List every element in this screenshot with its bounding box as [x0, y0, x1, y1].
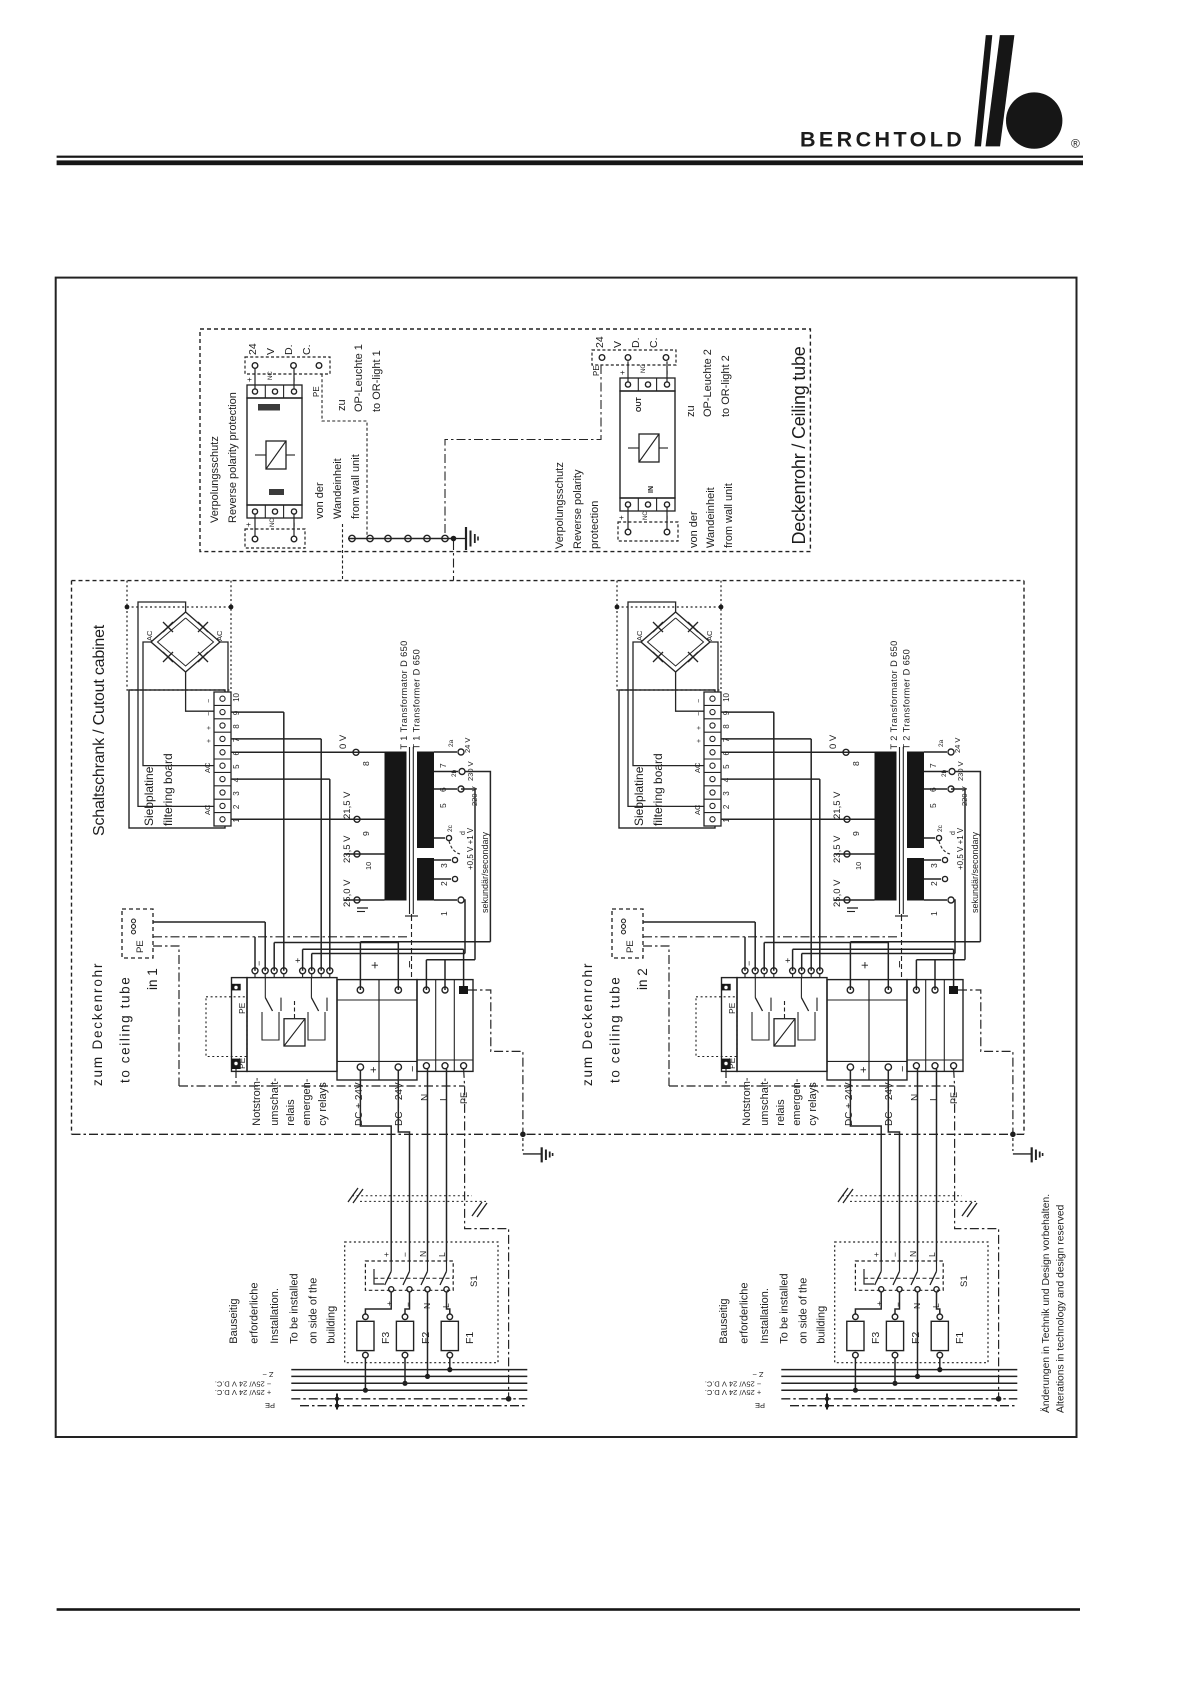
svg-text:25,0 V: 25,0 V: [342, 879, 353, 907]
svg-text:filtering board: filtering board: [161, 753, 175, 826]
svg-text:Notstrom-: Notstrom-: [251, 1077, 263, 1126]
svg-text:OP-Leuchte 1: OP-Leuchte 1: [353, 344, 365, 412]
svg-text:− 25V/ 24 V D.C.: − 25V/ 24 V D.C.: [215, 1380, 272, 1389]
svg-text:DC + 24V: DC + 24V: [354, 1082, 365, 1126]
svg-text:+: +: [381, 1252, 391, 1257]
svg-text:von der: von der: [314, 482, 326, 519]
svg-text:OP-Leuchte 2: OP-Leuchte 2: [702, 349, 714, 417]
svg-text:building: building: [326, 1306, 338, 1344]
svg-text:Deckenrohr / Ceiling tube: Deckenrohr / Ceiling tube: [789, 346, 809, 544]
svg-text:from wall unit: from wall unit: [350, 454, 362, 519]
svg-text:2b: 2b: [451, 769, 458, 777]
svg-text:V: V: [612, 341, 624, 348]
svg-text:zum Deckenrohr: zum Deckenrohr: [90, 962, 105, 1086]
svg-text:AC: AC: [145, 630, 154, 641]
svg-text:zu: zu: [685, 405, 697, 417]
svg-text:Installation.: Installation.: [269, 1288, 281, 1344]
svg-text:D.: D.: [283, 345, 295, 356]
svg-text:PE: PE: [135, 940, 146, 953]
svg-text:PE: PE: [312, 386, 321, 397]
svg-text:emergen-: emergen-: [301, 1078, 313, 1125]
svg-text:in 2: in 2: [635, 968, 650, 990]
svg-text:F2: F2: [420, 1332, 432, 1344]
svg-text:2: 2: [232, 804, 241, 809]
svg-text:T 2 Transformer D 650: T 2 Transformer D 650: [902, 649, 912, 750]
svg-text:−: −: [290, 377, 299, 382]
svg-text:protection: protection: [589, 501, 601, 549]
svg-text:N: N: [420, 1094, 431, 1101]
svg-text:DC − 24V: DC − 24V: [394, 1082, 405, 1126]
svg-text:10: 10: [232, 692, 241, 701]
svg-text:Bauseitig: Bauseitig: [228, 1298, 240, 1343]
svg-text:2: 2: [439, 881, 449, 886]
svg-text:Reverse polarity protection: Reverse polarity protection: [227, 392, 239, 523]
svg-text:AC: AC: [203, 762, 212, 773]
svg-text:Alterations in technology and: Alterations in technology and design res…: [1056, 1204, 1067, 1413]
svg-text:F3: F3: [380, 1332, 392, 1344]
svg-text:+: +: [206, 739, 213, 743]
svg-text:relais: relais: [285, 1099, 297, 1126]
svg-text:5: 5: [232, 764, 241, 769]
svg-text:to OR-light 2: to OR-light 2: [720, 355, 732, 417]
svg-text:IN: IN: [648, 486, 655, 493]
svg-text:5: 5: [438, 803, 448, 808]
svg-text:2a: 2a: [448, 739, 455, 747]
svg-text:umschalt-: umschalt-: [269, 1078, 281, 1126]
svg-text:24 V: 24 V: [463, 738, 472, 753]
svg-text:D.: D.: [630, 338, 642, 349]
svg-text:+: +: [245, 377, 254, 382]
svg-text:Siebplatine: Siebplatine: [142, 766, 156, 826]
svg-text:−: −: [254, 961, 264, 966]
svg-text:−: −: [290, 522, 299, 527]
svg-text:zu: zu: [336, 399, 348, 411]
svg-text:V: V: [265, 348, 277, 355]
svg-text:23,5 V: 23,5 V: [342, 835, 353, 863]
svg-text:PE: PE: [237, 1002, 247, 1014]
svg-text:7: 7: [438, 763, 448, 768]
svg-text:+: +: [618, 370, 627, 375]
svg-text:N: N: [418, 1251, 428, 1257]
svg-text:−: −: [402, 960, 417, 968]
svg-text:24: 24: [247, 343, 259, 355]
svg-text:+: +: [617, 515, 626, 520]
svg-text:AC: AC: [215, 630, 224, 641]
svg-text:PE: PE: [265, 1401, 275, 1410]
svg-text:NC: NC: [643, 511, 649, 520]
svg-text:N: N: [422, 1303, 432, 1309]
svg-text:−: −: [663, 370, 672, 375]
svg-text:on side of the: on side of the: [308, 1278, 320, 1344]
svg-text:L: L: [441, 1303, 451, 1308]
svg-text:+: +: [384, 1301, 394, 1306]
svg-text:24: 24: [594, 336, 606, 348]
svg-text:C.: C.: [648, 338, 660, 349]
svg-text:S1: S1: [469, 1275, 480, 1287]
svg-text:to OR-light 1: to OR-light 1: [371, 350, 383, 412]
svg-text:3: 3: [232, 791, 241, 796]
svg-text:8: 8: [232, 724, 241, 729]
svg-text:Schaltschrank / Cutout cabinet: Schaltschrank / Cutout cabinet: [91, 624, 108, 836]
svg-text:in 1: in 1: [145, 968, 160, 990]
svg-text:NC: NC: [270, 518, 276, 527]
svg-text:T 2 Transformator D 650: T 2 Transformator D 650: [889, 640, 899, 749]
svg-text:+: +: [368, 1067, 380, 1073]
svg-text:10: 10: [364, 862, 373, 870]
svg-text:from wall unit: from wall unit: [723, 483, 735, 548]
svg-text:BERCHTOLD: BERCHTOLD: [800, 128, 965, 152]
svg-text:PE: PE: [592, 365, 601, 376]
svg-text:Verpolungsschutz: Verpolungsschutz: [554, 462, 566, 549]
svg-text:L: L: [439, 1095, 450, 1101]
svg-text:Verpolungsschutz: Verpolungsschutz: [209, 436, 221, 523]
svg-text:−: −: [206, 699, 213, 703]
svg-text:sekundär/secondary: sekundär/secondary: [480, 831, 490, 913]
svg-text:T 1 Transformator D 650: T 1 Transformator D 650: [399, 640, 409, 749]
svg-text:21,5 V: 21,5 V: [342, 791, 353, 819]
svg-text:T 1 Transformer D 650: T 1 Transformer D 650: [412, 649, 422, 750]
svg-text:zum Deckenrohr: zum Deckenrohr: [580, 962, 595, 1086]
svg-text:0 V: 0 V: [338, 734, 349, 749]
svg-text:to ceiling tube: to ceiling tube: [607, 976, 622, 1083]
svg-text:Z ~: Z ~: [262, 1370, 274, 1379]
svg-text:PE: PE: [237, 1057, 247, 1069]
svg-text:Wandeinheit: Wandeinheit: [332, 458, 344, 519]
svg-text:To be installed: To be installed: [289, 1273, 301, 1343]
svg-text:+: +: [244, 522, 253, 527]
svg-text:von der: von der: [688, 511, 700, 548]
svg-text:−: −: [400, 1252, 410, 1257]
svg-text:L: L: [437, 1252, 447, 1257]
svg-text:NC: NC: [268, 371, 274, 380]
svg-text:+: +: [293, 958, 303, 963]
svg-text:−: −: [403, 1302, 413, 1307]
svg-text:+0,5 V +1 V: +0,5 V +1 V: [466, 827, 475, 870]
svg-text:1: 1: [439, 911, 449, 916]
svg-text:C.: C.: [301, 345, 313, 356]
svg-text:AC: AC: [203, 804, 212, 815]
svg-text:Wandeinheit: Wandeinheit: [705, 487, 717, 548]
svg-text:to ceiling tube: to ceiling tube: [117, 976, 132, 1083]
svg-text:−: −: [663, 515, 672, 520]
svg-text:cy relays: cy relays: [317, 1082, 329, 1126]
svg-text:8: 8: [361, 761, 371, 766]
svg-text:9: 9: [361, 831, 371, 836]
svg-text:F1: F1: [464, 1332, 476, 1344]
svg-text:+ 25V/ 24 V D.C.: + 25V/ 24 V D.C.: [215, 1388, 272, 1397]
svg-text:+: +: [367, 961, 382, 969]
svg-text:Änderungen in Technik und Desi: Änderungen in Technik und Design vorbeha…: [1040, 1194, 1052, 1413]
svg-text:erforderliche: erforderliche: [249, 1283, 261, 1344]
svg-text:+: +: [206, 726, 213, 730]
svg-text:OUT: OUT: [636, 397, 643, 413]
svg-text:2c: 2c: [447, 824, 454, 832]
svg-text:−: −: [206, 712, 213, 716]
svg-text:®: ®: [1071, 137, 1080, 151]
svg-text:3: 3: [439, 863, 449, 868]
svg-text:Reverse polarity: Reverse polarity: [572, 469, 584, 549]
